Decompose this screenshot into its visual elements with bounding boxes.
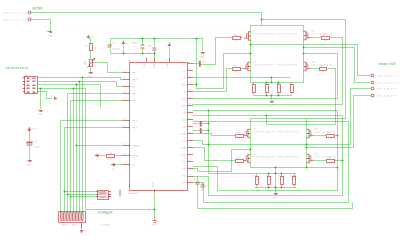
wire R8 wiper to IC REF pin: [93, 63, 123, 73]
wire bridge1 right leg: [303, 26, 305, 83]
wire C3 legs: [154, 39, 156, 47]
wire GLA2 net: [193, 148, 236, 161]
resistor R9 sense: [279, 174, 285, 188]
wire VCC arrow to IC pin: [169, 47, 171, 58]
resistor R17 gate Q6: [327, 133, 335, 141]
svg-text:ASW-1: ASW-1: [62, 224, 70, 227]
resistor R5 sense: [254, 174, 259, 188]
wire row4 down to ground: [40, 89, 42, 110]
resistor R1 sense: [251, 83, 257, 96]
ground GND1: [48, 32, 54, 38]
svg-text:GND: GND: [38, 114, 43, 116]
op-amp U1 A3986 IC body: [130, 63, 188, 191]
connector X2 pin 1: [371, 94, 398, 97]
junctions bank1: [266, 82, 268, 84]
svg-text:OSC: OSC: [182, 64, 187, 66]
svg-text:TB9-5-V0-2P-2: TB9-5-V0-2P-2: [3, 20, 27, 22]
resistor R10b sense: [292, 174, 297, 188]
svg-text:+5V: +5V: [91, 37, 95, 39]
switch SW1 dip: [59, 212, 86, 227]
resistor R13 gate Q2: [322, 35, 330, 43]
svg-text:GHA2: GHA2: [181, 133, 188, 136]
wire GLA net: [193, 69, 233, 92]
wire wrap nest 3: [193, 122, 349, 203]
resistor R11 gate Q1: [233, 35, 241, 43]
wire wrap nest 2: [193, 161, 343, 196]
junction bridge1 SB: [303, 53, 305, 55]
capacitor C6 2200uF bulk: [27, 142, 42, 149]
resistor R18 gate Q8: [327, 158, 335, 166]
wire MS1 line: [68, 93, 123, 95]
svg-text:configure: configure: [102, 224, 112, 227]
svg-text:RESET: RESET: [132, 156, 140, 158]
IC left pin numbers: [124, 71, 127, 166]
svg-text:A3986SLD: A3986SLD: [129, 192, 140, 195]
junction C8/sense vertical: [208, 123, 210, 125]
capacitor C13 bootstrap: [193, 177, 200, 189]
resistor R14 gate Q4: [320, 66, 327, 74]
wire gnd run down: [86, 89, 155, 210]
connector X2 pin 3: [371, 81, 398, 84]
wire bundle v5: [73, 89, 75, 213]
connector X2 pin 2: [371, 87, 398, 90]
transistor Q7: [244, 154, 300, 163]
junction row4/bundle: [73, 88, 75, 90]
svg-text:2200uF: 2200uF: [34, 147, 42, 149]
resistor R10: [107, 153, 115, 161]
junction C9/sense vertical: [208, 130, 210, 132]
junction bridge2 phaseB2: [306, 147, 308, 149]
junction C2 top: [142, 38, 144, 40]
resistor R7: [85, 44, 98, 51]
wire R11 to Q1 gate: [241, 37, 244, 39]
wire phase2b to motor pin2: [209, 89, 371, 145]
wire R15 to Q5 gate: [243, 135, 245, 137]
resistor R12 gate Q3: [233, 66, 241, 74]
svg-text:GLB2: GLB2: [181, 169, 187, 171]
junction bridge1 phaseB: [303, 47, 305, 49]
svg-text:GHB: GHB: [182, 106, 187, 108]
wire bundle v8: [82, 78, 84, 213]
wire wrap nest 4: [198, 189, 353, 209]
wire JP1 row5 to +5V: [38, 92, 53, 99]
svg-text:DIR: DIR: [132, 87, 136, 89]
supply +5V arrow at SLEEP: [111, 163, 116, 171]
resistor network bar: [118, 190, 123, 197]
sense bank2 rails: [255, 173, 297, 175]
svg-text:GND: GND: [152, 225, 157, 227]
sense bank1 rails: [251, 82, 304, 84]
wire supply to bridge2: [262, 20, 346, 119]
ground GND2: [27, 161, 33, 167]
svg-text:TB9-5VB-4P-2: TB9-5VB-4P-2: [377, 89, 399, 91]
svg-text:MS1: MS1: [132, 94, 137, 96]
svg-text:SR: SR: [132, 165, 135, 167]
ground GND7: [269, 102, 275, 108]
svg-text:GLA2: GLA2: [181, 147, 187, 150]
connector X1 pin 2: [3, 18, 31, 21]
svg-text:GND: GND: [49, 36, 54, 38]
resistor R4 sense: [289, 83, 294, 96]
svg-text:+5V: +5V: [95, 160, 99, 162]
svg-text:GHB2: GHB2: [181, 155, 188, 157]
wire C6 to ground: [29, 146, 31, 161]
wire JP1 row3: [38, 84, 101, 86]
IC right pin names: [181, 64, 188, 185]
trimmer R8: [84, 58, 96, 68]
wire bundle v4: [70, 101, 72, 213]
wire jumper rows: [65, 191, 96, 193]
wire SA net: [193, 54, 251, 89]
transistor Q5: [244, 129, 300, 138]
wire GHB2 net: [193, 111, 338, 136]
svg-text:configure: configure: [98, 211, 114, 215]
junction bridge1 SA: [250, 53, 252, 55]
svg-text:1MHz: 1MHz: [132, 43, 138, 45]
junction row4: [40, 88, 42, 90]
IC right pin numbers: [189, 62, 192, 184]
svg-text:VDD: VDD: [167, 62, 169, 67]
svg-text:+5V: +5V: [125, 43, 129, 45]
capacitor C3: [148, 46, 161, 55]
svg-text:GND: GND: [152, 182, 154, 187]
junction gnd branch top: [196, 38, 198, 40]
capacitor C2: [132, 43, 153, 51]
wire ENABLE line: [77, 145, 123, 147]
ground GND3: [88, 73, 94, 79]
supply +5V arrow above R7: [87, 35, 95, 39]
junction jog tap: [266, 115, 268, 117]
wire R17 to Q6 gate: [314, 135, 327, 137]
IC top pin numbers: [143, 60, 170, 62]
svg-text:IRF2N4ER8F: IRF2N4ER8F: [315, 157, 337, 159]
wire arrow to C6: [29, 131, 31, 142]
svg-text:IRF2N4ER8F IRF2N4ER8F: IRF2N4ER8F IRF2N4ER8F: [254, 65, 299, 67]
ground GND5: [200, 53, 206, 59]
wire phaseB to motor pin3: [304, 48, 371, 83]
wire bridge2 right leg: [306, 119, 308, 168]
wire GLB net: [267, 69, 336, 125]
svg-text:C1 +: C1 +: [113, 43, 118, 45]
svg-text:GND: GND: [269, 106, 274, 108]
junction phase2 tap: [208, 110, 210, 112]
wire bridge2 left leg: [250, 119, 252, 168]
svg-text:REF: REF: [132, 73, 137, 75]
svg-text:TB9-5-V0-1C-1: TB9-5-V0-1C-1: [3, 13, 27, 15]
wire SB to IC: [193, 54, 338, 99]
transistor Q1: [244, 31, 298, 41]
wire wrap nest 1: [193, 136, 338, 191]
wire bundle v3: [67, 94, 69, 213]
svg-text:GND: GND: [273, 198, 278, 200]
junction row3/bundle: [76, 84, 78, 86]
wire PFD1 line: [61, 120, 123, 122]
junction gnd branch bottom: [196, 84, 198, 86]
wire bundle v6: [76, 85, 78, 213]
svg-text:+5V: +5V: [84, 231, 88, 233]
wire bridge1 top rail: [251, 25, 304, 27]
wire R16 to Q7 gate: [243, 160, 245, 162]
wire SENSE1 net: [193, 77, 291, 79]
svg-text:STEP: STEP: [132, 80, 138, 82]
connector SJ1 solder jumpers: [96, 191, 112, 200]
svg-text:IRF2N4ER8F: IRF2N4ER8F: [315, 132, 337, 134]
wire +50V from pin1: [31, 12, 262, 14]
wire SA2 net: [193, 150, 251, 172]
supply +5V arrow at R10: [94, 154, 106, 162]
transistor Q2: [304, 31, 334, 40]
svg-text:IRF2N4ER8F IRF2N4ER8F: IRF2N4ER8F IRF2N4ER8F: [254, 34, 299, 36]
junction row2/bundle: [79, 81, 81, 83]
connector JP1: [23, 76, 38, 94]
resistor R2 sense: [264, 83, 269, 96]
wire phase2 to motor pin2: [209, 111, 255, 174]
transistor Q6: [307, 129, 337, 138]
junction jumper j3: [70, 196, 72, 198]
junction wrap2/gate: [342, 160, 344, 162]
svg-text:GND: GND: [27, 165, 32, 167]
svg-text:IN 50V: IN 50V: [33, 7, 44, 11]
svg-text:PFD1: PFD1: [132, 121, 138, 123]
ground GND6: [152, 221, 158, 227]
wire R12 to Q3 gate: [241, 68, 244, 70]
svg-text:LSS1: LSS1: [181, 176, 187, 178]
capacitor C9 bootstrap B: [193, 128, 209, 135]
junction phase2b tap: [208, 144, 210, 146]
wire GHA net: [201, 38, 233, 65]
svg-text:GND: GND: [200, 57, 205, 59]
IC bottom pin lead GND: [154, 190, 156, 194]
svg-text:PFD2: PFD2: [132, 128, 138, 130]
capacitor C8 bootstrap A: [193, 120, 209, 127]
resistor R16 gate Q7: [236, 158, 244, 166]
svg-text:+5V: +5V: [111, 169, 115, 171]
wire R18 to Q8 gate: [314, 160, 327, 162]
wire GHB net: [193, 38, 343, 105]
svg-text:uController: uController: [6, 66, 30, 70]
IC right pin leads: [188, 64, 194, 183]
svg-text:TB9-5VB-4P-1: TB9-5VB-4P-1: [377, 96, 399, 98]
junctions bank2: [268, 173, 270, 175]
svg-text:IRF2N4ER8F IRF2N4ER8F: IRF2N4ER8F IRF2N4ER8F: [255, 132, 300, 134]
svg-text:VREG: VREG: [153, 62, 155, 68]
wire gnd branch right of IC: [196, 39, 198, 85]
wire JP1 row1 to STEP: [38, 78, 123, 80]
wire bundle v1: [60, 121, 62, 213]
wire GHA2 net: [193, 134, 236, 136]
junction enable/bundle: [76, 145, 78, 147]
svg-text:TB9-5VB-4P-4: TB9-5VB-4P-4: [377, 76, 399, 78]
svg-text:33uF: 33uF: [147, 46, 153, 48]
ground GND8: [273, 194, 279, 200]
wire sense1 drop: [271, 78, 273, 83]
capacitor C14 bootstrap: [201, 183, 210, 191]
junction bridge2 phaseB1: [306, 144, 308, 146]
svg-text:+5V: +5V: [49, 96, 53, 98]
svg-text:MS2: MS2: [132, 101, 137, 103]
wire IC GND drop: [154, 194, 156, 221]
wire bundle v7: [79, 82, 81, 213]
junction sense2 top: [275, 167, 277, 169]
wire GLB2 net: [193, 116, 343, 161]
IC top pin names: [144, 62, 169, 68]
wire pin2 to ground: [31, 20, 51, 32]
wire SENSE2 drop: [275, 168, 277, 194]
svg-text:+50V: +50V: [32, 129, 38, 131]
wire R7 to R8: [90, 51, 92, 59]
junction wrap1/gate: [337, 135, 339, 137]
wire R13 to Q2 gate: [311, 37, 322, 39]
wire PFD2 line: [65, 127, 123, 129]
wire R10 to RESET: [115, 155, 123, 157]
resistor R3 sense: [276, 83, 282, 96]
wire R8 to ground: [90, 67, 92, 73]
resistor R6 sense: [267, 174, 272, 188]
wire C2 legs: [142, 39, 144, 45]
connector X1 pin 1: [3, 11, 31, 14]
resistor R15 gate Q5: [236, 133, 244, 141]
junction jumper j2: [67, 194, 69, 196]
transistor Q4: [304, 62, 334, 71]
junction LSS2/wrap: [337, 167, 339, 169]
junction arrow/rail: [123, 53, 125, 55]
junction jumper j1: [64, 191, 66, 193]
wire bank1 to ground: [271, 96, 273, 101]
wire JP1 row4 gnd net: [38, 88, 86, 90]
wire R14 to Q4 gate: [311, 68, 320, 70]
svg-text:GHA: GHA: [182, 84, 187, 87]
supply VCC arrow at IC top: [166, 43, 172, 47]
wire bundle v2: [64, 128, 66, 213]
junction gnd run: [154, 209, 156, 211]
wire +5V arrow stem: [123, 45, 125, 54]
IC left pin names: [132, 73, 141, 167]
junction bridge2 SA2: [250, 149, 252, 151]
svg-text:motor OUT: motor OUT: [379, 62, 398, 66]
wire LSS2 line: [251, 167, 338, 169]
IC left pin leads: [123, 73, 131, 165]
svg-text:VBB: VBB: [144, 62, 146, 67]
svg-text:TB9-5VB-4P-3: TB9-5VB-4P-3: [377, 83, 399, 85]
IC top pin leads: [147, 58, 170, 63]
transistor Q3: [244, 62, 299, 71]
junction row1/bundle: [82, 77, 84, 79]
wire supply drop to bridge1: [261, 13, 263, 26]
junction bridge1 phaseA: [250, 44, 252, 46]
supply +50V arrow at bulk cap: [28, 127, 38, 132]
capacitor C7 on OSC pin: [193, 60, 208, 67]
capacitor C1: [108, 43, 121, 51]
connector X2 pin 4: [371, 74, 398, 77]
junction bridge2 LSS: [306, 167, 308, 169]
svg-text:ENABLE: ENABLE: [132, 145, 141, 148]
svg-text:2200uF: 2200uF: [113, 49, 121, 51]
supply arrow below SW1: [80, 223, 88, 234]
junction C2 bottom: [142, 53, 144, 55]
wire JP1 row2 to DIR: [38, 82, 123, 87]
svg-text:GLB: GLB: [182, 120, 187, 122]
wire pin SA2 jog: [193, 141, 209, 145]
ground GND4: [38, 111, 44, 116]
svg-text:GLA: GLA: [182, 98, 187, 101]
wire row3 branch to RESET via R10: [100, 85, 102, 108]
wire arrow to R7: [89, 39, 91, 44]
junction sense1: [271, 77, 273, 79]
junction C3 rail: [154, 53, 156, 55]
wire C1 bottom leg: [111, 49, 155, 54]
wire MS2 line: [71, 100, 123, 102]
junction supply tee: [261, 19, 263, 21]
wire bridge2 top rail: [251, 118, 346, 120]
wire phaseA to motor pin4: [251, 45, 371, 76]
capacitor cluster top rail: [111, 39, 203, 52]
junction C3 top: [154, 38, 156, 40]
wire bridge1 left leg: [250, 26, 252, 83]
wire SLEEP to +5V arrow: [115, 164, 123, 166]
wire phase2 to motor pin1: [307, 96, 371, 148]
supply +5V arrow right: [49, 96, 58, 101]
svg-text:IRF2N4ER8F IRF2N4ER8F: IRF2N4ER8F IRF2N4ER8F: [255, 157, 300, 159]
transistor Q8: [307, 154, 337, 163]
supply +5V arrow cap cluster: [122, 41, 129, 45]
svg-text:LSS2: LSS2: [181, 183, 187, 185]
svg-text:ASW-2: ASW-2: [72, 224, 80, 227]
